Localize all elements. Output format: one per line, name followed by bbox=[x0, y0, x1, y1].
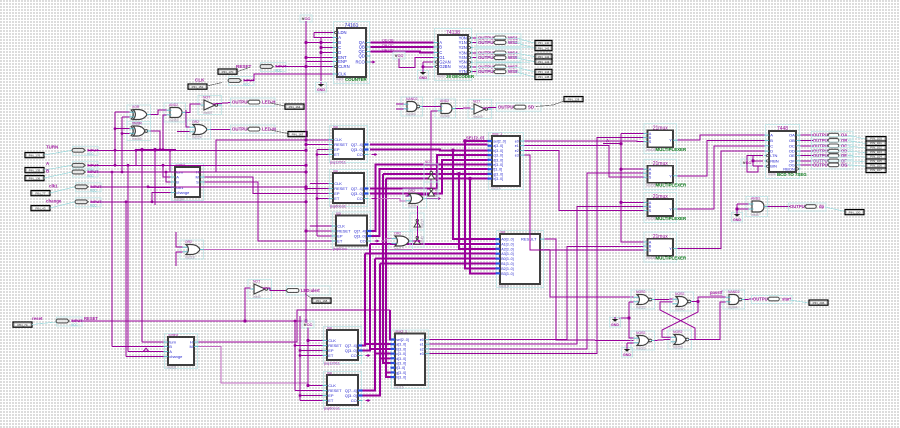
wire c2 M out bbox=[199, 347, 309, 384]
svg-text:c[3..0]: c[3..0] bbox=[493, 154, 503, 158]
wire dp in1 bbox=[737, 203, 749, 205]
svg-text:G2BN: G2BN bbox=[439, 64, 450, 69]
xnor gate inst46 bbox=[127, 122, 151, 142]
xor gate inst63 bbox=[127, 105, 151, 125]
wire drop x155 bbox=[154, 150, 156, 206]
wire nand in2 bbox=[396, 108, 404, 110]
wire 7448 OB bbox=[801, 139, 814, 141]
svg-text:COUNTER: COUNTER bbox=[345, 77, 368, 82]
wire xnor in2 bbox=[122, 133, 130, 135]
wire S out bbox=[205, 182, 332, 241]
svg-text:d[3..0]: d[3..0] bbox=[396, 357, 406, 361]
block RESULT inst19 bbox=[496, 230, 544, 288]
wire mux2 e1 up bbox=[430, 206, 644, 344]
wire 7448 OC bbox=[801, 145, 814, 147]
wire xor in1 bbox=[115, 111, 130, 113]
svg-text:RESULT: RESULT bbox=[521, 237, 537, 242]
svg-text:NOT: NOT bbox=[473, 100, 480, 104]
svg-text:CO: CO bbox=[351, 353, 357, 358]
wire jsq2 CLK bbox=[310, 183, 329, 185]
power VCC (74138 G1) bbox=[393, 52, 405, 59]
output symbol start bbox=[752, 296, 793, 304]
svg-text:21mux: 21mux bbox=[653, 125, 669, 131]
svg-text:AND2: AND2 bbox=[169, 103, 178, 107]
svg-text:LTN: LTN bbox=[770, 153, 777, 158]
svg-text:inst48: inst48 bbox=[440, 115, 450, 119]
wire jsq5 CLK bbox=[308, 385, 323, 387]
svg-text:PIN_100: PIN_100 bbox=[870, 137, 882, 141]
wire nand-and bbox=[423, 106, 442, 108]
output symbol SD bbox=[497, 103, 542, 111]
wire nand in1 bbox=[396, 103, 404, 105]
svg-text:PIN_43: PIN_43 bbox=[35, 206, 45, 210]
svg-text:RBON: RBON bbox=[783, 166, 795, 171]
svg-text:e0: e0 bbox=[515, 140, 519, 144]
bus row h bbox=[386, 178, 488, 180]
svg-text:PIN_135: PIN_135 bbox=[29, 168, 41, 172]
svg-text:CO: CO bbox=[357, 196, 363, 201]
svg-text:BCD TO 7SEG: BCD TO 7SEG bbox=[777, 172, 807, 177]
wire drop x136 bbox=[135, 150, 137, 167]
svg-text:PIN_176: PIN_176 bbox=[29, 153, 41, 157]
wire QB to B bbox=[371, 46, 434, 48]
wire TURN run bbox=[88, 149, 306, 151]
wire inst20 out bbox=[427, 198, 441, 200]
wire vcc-7448 bbox=[747, 156, 753, 166]
svg-text:SD: SD bbox=[528, 105, 534, 110]
svg-text:XOR: XOR bbox=[132, 105, 140, 109]
bus row g bbox=[383, 173, 488, 175]
svg-text:GND: GND bbox=[623, 353, 631, 357]
svg-text:OR2: OR2 bbox=[408, 189, 415, 193]
assignment line WS2 bbox=[515, 42, 535, 48]
wire and-not bbox=[456, 107, 471, 110]
svg-text:mux_1: mux_1 bbox=[493, 132, 503, 136]
svg-text:CLK: CLK bbox=[195, 78, 205, 83]
pin box seg7 bbox=[866, 168, 886, 173]
wire Y->WS2 bbox=[473, 41, 478, 43]
bus RESULT A3 bbox=[365, 253, 496, 255]
svg-text:mux2_1: mux2_1 bbox=[396, 330, 408, 334]
wire or24 in1 bbox=[186, 110, 190, 127]
pin box WS1 bbox=[535, 40, 552, 45]
wire RESET to CLRN bbox=[276, 66, 333, 68]
pin box seg2 bbox=[866, 146, 886, 151]
svg-text:NOT: NOT bbox=[425, 160, 432, 164]
svg-text:inst45: inst45 bbox=[473, 115, 483, 119]
pin box PIN_168 bbox=[312, 298, 331, 303]
output symbol OG bbox=[812, 161, 854, 169]
bus RESULT B0 bbox=[375, 258, 496, 260]
assignment line OB bbox=[848, 140, 866, 143]
svg-text:74161: 74161 bbox=[345, 23, 359, 29]
svg-text:VCC: VCC bbox=[395, 53, 404, 58]
nor gate inst23 bbox=[631, 331, 655, 351]
assignment line start bbox=[790, 300, 809, 303]
svg-text:b[3..0]: b[3..0] bbox=[493, 149, 503, 153]
svg-text:A0[3..0]: A0[3..0] bbox=[501, 238, 513, 242]
assignment line change bbox=[50, 202, 75, 208]
assignment line LED-alert bbox=[305, 294, 312, 299]
wire mux2 e2 up bbox=[430, 173, 644, 349]
wire inst20 in2 bbox=[378, 199, 406, 202]
wire jsq4 RESET bbox=[295, 345, 323, 347]
svg-text:NOT: NOT bbox=[253, 280, 260, 284]
assignment line WS5 bbox=[515, 58, 535, 62]
svg-text:inst46: inst46 bbox=[132, 137, 142, 141]
input label A bbox=[46, 161, 50, 166]
svg-text:PIN_106: PIN_106 bbox=[870, 164, 882, 168]
wire dp in2 bbox=[737, 204, 749, 209]
svg-text:inst39: inst39 bbox=[673, 346, 683, 350]
svg-text:PIN_102: PIN_102 bbox=[870, 146, 882, 150]
wire c2 A bbox=[128, 351, 164, 353]
bus RESULT B3 bbox=[470, 179, 496, 274]
output symbol OD bbox=[812, 147, 854, 155]
wire inst12 in1 bbox=[381, 239, 392, 241]
svg-text:SEL[2..0]: SEL[2..0] bbox=[466, 136, 485, 141]
pin box PIN_176 bbox=[25, 153, 44, 158]
input symbol reset bbox=[56, 317, 83, 327]
wire latch feed A bbox=[550, 250, 634, 298]
svg-text:21mux: 21mux bbox=[653, 234, 669, 240]
svg-text:f[3..0]: f[3..0] bbox=[493, 168, 502, 172]
svg-text:Y: Y bbox=[669, 247, 672, 251]
svg-text:h[3..0]: h[3..0] bbox=[493, 177, 503, 181]
svg-text:change: change bbox=[46, 199, 62, 204]
block jsq60co1 inst25 bbox=[323, 371, 363, 408]
svg-text:jsq60co1: jsq60co1 bbox=[329, 204, 347, 209]
bus jsq1 Q30 bbox=[370, 149, 488, 152]
power VCC (7448) bbox=[741, 159, 753, 166]
svg-text:GND: GND bbox=[733, 218, 741, 222]
wire inst12 in2 bbox=[388, 243, 392, 245]
svg-text:21mux: 21mux bbox=[653, 161, 669, 167]
wire LDN tie bbox=[314, 32, 333, 34]
svg-text:A3[3..0]: A3[3..0] bbox=[501, 252, 513, 256]
svg-text:VCC: VCC bbox=[90, 189, 97, 193]
svg-text:38 DECODER: 38 DECODER bbox=[446, 74, 475, 79]
svg-text:ET: ET bbox=[328, 398, 334, 403]
svg-text:e1: e1 bbox=[515, 144, 519, 148]
input label B bbox=[46, 168, 49, 173]
wire Y->WS1 bbox=[473, 37, 478, 39]
svg-text:OA: OA bbox=[789, 133, 795, 138]
svg-text:AND2: AND2 bbox=[440, 99, 449, 103]
ground (74138 G2) bbox=[418, 70, 429, 80]
svg-text:inst5: inst5 bbox=[253, 295, 261, 299]
wire VCC rail x306 top bbox=[305, 21, 307, 67]
pin box dp bbox=[845, 210, 864, 215]
pin box seg0 bbox=[866, 137, 886, 142]
svg-text:jsq12011: jsq12011 bbox=[329, 160, 347, 165]
input symbol change bbox=[75, 198, 102, 208]
svg-text:VCC: VCC bbox=[90, 204, 97, 208]
input label clk1 bbox=[49, 184, 58, 189]
nor gate inst22 bbox=[631, 290, 655, 310]
wire B run bbox=[88, 171, 306, 173]
svg-text:RCO: RCO bbox=[355, 60, 365, 65]
wire latch gnd2 bbox=[627, 342, 634, 344]
svg-text:NOR2: NOR2 bbox=[673, 330, 683, 334]
bus col 370 bbox=[363, 244, 371, 351]
svg-text:PIN_141: PIN_141 bbox=[538, 46, 550, 50]
wire G2 tie bbox=[423, 61, 433, 63]
bus mux2 a bbox=[365, 343, 391, 345]
wire M out bbox=[205, 177, 329, 194]
wire not-out bbox=[483, 106, 497, 109]
svg-text:PIN_206: PIN_206 bbox=[813, 301, 825, 305]
svg-text:VCC: VCC bbox=[275, 68, 282, 72]
pin box WS5 bbox=[535, 59, 552, 64]
svg-text:RBN: RBN bbox=[770, 158, 779, 163]
svg-text:jsq60co: jsq60co bbox=[332, 246, 348, 251]
wire jsq1 RESET bbox=[306, 144, 329, 146]
bus mux2 h stub bbox=[386, 371, 391, 373]
wire or24 out bbox=[211, 129, 232, 131]
and gate inst48 bbox=[435, 99, 456, 119]
wire B drop bbox=[166, 172, 171, 182]
output symbol OC bbox=[812, 142, 854, 150]
svg-text:ET: ET bbox=[334, 196, 340, 201]
wire and in2 drop bbox=[408, 111, 438, 195]
wire rail x306 mid bbox=[305, 67, 307, 322]
wire buf drop2 bbox=[417, 206, 419, 238]
input symbol TURN bbox=[72, 146, 99, 156]
wire VCC to G1 bbox=[399, 58, 434, 68]
wire jsq4 CLK bbox=[308, 340, 323, 342]
svg-text:VCC: VCC bbox=[71, 323, 78, 327]
svg-text:inst31: inst31 bbox=[167, 366, 177, 370]
pin box PIN_74 bbox=[13, 322, 32, 327]
svg-text:A2[3..0]: A2[3..0] bbox=[501, 247, 513, 251]
bus mux2 b bbox=[370, 348, 391, 350]
wire Y->WS4 bbox=[473, 52, 478, 54]
pin box seg6 bbox=[866, 164, 886, 169]
svg-text:B2[3..0]: B2[3..0] bbox=[501, 267, 513, 271]
svg-text:RESET: RESET bbox=[84, 316, 98, 321]
wire rail x317 bbox=[316, 150, 318, 237]
ground (dp) bbox=[732, 212, 743, 222]
output symbol LED-H bbox=[231, 98, 276, 106]
assignment line LED-M bbox=[270, 130, 288, 134]
nand gate inst44 bbox=[723, 290, 745, 310]
svg-text:inst34: inst34 bbox=[174, 198, 184, 202]
assignment line WS8 bbox=[515, 72, 535, 78]
block control inst31 bbox=[164, 333, 199, 369]
svg-text:CLRN: CLRN bbox=[338, 64, 349, 69]
svg-text:GND: GND bbox=[611, 323, 619, 327]
svg-text:PIN_107: PIN_107 bbox=[870, 168, 882, 172]
wire jsq1 EP bbox=[317, 149, 329, 151]
output symbol LED-M bbox=[231, 125, 277, 133]
wire clk1 drop bbox=[148, 186, 171, 189]
svg-text:passtf: passtf bbox=[710, 290, 723, 295]
svg-text:c[3..0]: c[3..0] bbox=[396, 352, 406, 356]
pin box PIN_206 bbox=[809, 300, 828, 305]
svg-text:inst22: inst22 bbox=[636, 306, 646, 310]
svg-text:Y: Y bbox=[669, 139, 672, 143]
pin box PIN_152 bbox=[188, 84, 207, 89]
and gate inst8 bbox=[746, 197, 768, 218]
assignment line OE bbox=[848, 156, 866, 158]
output symbol WS5 bbox=[477, 54, 522, 62]
wire RESULT out bbox=[545, 239, 634, 340]
svg-text:VCC: VCC bbox=[302, 16, 311, 21]
svg-text:a[3..0]: a[3..0] bbox=[493, 144, 503, 148]
bcd-7seg 7448 U3 bbox=[765, 125, 808, 179]
svg-text:OR2: OR2 bbox=[185, 240, 192, 244]
wire latch in bot bbox=[629, 318, 634, 338]
wire Y->WS5 bbox=[473, 57, 478, 59]
wire or24 in2 bbox=[177, 131, 190, 133]
wire xor->and bbox=[151, 110, 167, 114]
ground (latch2) bbox=[622, 347, 633, 357]
svg-text:VCC: VCC bbox=[87, 152, 94, 156]
svg-text:OG: OG bbox=[841, 162, 848, 167]
svg-text:Y: Y bbox=[669, 174, 672, 178]
assignment line dp bbox=[825, 207, 845, 212]
assignment line reset bbox=[32, 322, 56, 325]
wire Y3 to C bbox=[678, 146, 765, 209]
net label RESET lbl bbox=[84, 316, 98, 321]
wire change drop bbox=[152, 193, 171, 202]
block 21mux inst38 bbox=[643, 232, 687, 262]
nor gate inst39 bbox=[668, 330, 692, 350]
svg-text:inst16: inst16 bbox=[394, 386, 404, 390]
wire jsq4 ET bbox=[300, 355, 323, 357]
wire cross2 bbox=[660, 302, 695, 340]
svg-text:inst20: inst20 bbox=[408, 205, 418, 209]
svg-text:B: B bbox=[46, 168, 49, 173]
svg-text:VCC: VCC bbox=[87, 174, 94, 178]
svg-text:f[3..0]: f[3..0] bbox=[396, 366, 405, 370]
svg-text:AND2: AND2 bbox=[751, 197, 760, 201]
wire mux2 e3 up bbox=[430, 138, 644, 354]
buffer inst47 bbox=[424, 160, 439, 182]
wire rail y149.5 bbox=[136, 149, 176, 151]
wire Y->WS8 bbox=[473, 71, 478, 73]
input label TURN bbox=[46, 145, 58, 150]
assignment line TURN bbox=[44, 150, 72, 155]
svg-text:GND: GND bbox=[317, 88, 325, 92]
svg-text:g[3..0]: g[3..0] bbox=[396, 371, 406, 375]
input label RESET (top) bbox=[236, 64, 252, 69]
wire QA to A bbox=[371, 42, 434, 44]
svg-text:BIN: BIN bbox=[770, 164, 777, 169]
assignment line LED-H bbox=[270, 103, 285, 106]
wire c2 B bbox=[112, 346, 164, 348]
output symbol LED-alert bbox=[286, 286, 330, 295]
svg-text:PIN_164: PIN_164 bbox=[289, 105, 301, 109]
wire xor in2 bbox=[122, 116, 130, 118]
svg-text:A1[3..0]: A1[3..0] bbox=[501, 242, 513, 246]
svg-text:inst43: inst43 bbox=[435, 188, 439, 197]
svg-text:RESET: RESET bbox=[236, 64, 252, 69]
bus mux2 c bbox=[375, 353, 391, 355]
svg-text:QD: QD bbox=[359, 54, 365, 59]
svg-text:B0[3..0]: B0[3..0] bbox=[501, 257, 513, 261]
svg-text:M: M bbox=[189, 344, 192, 349]
assignment line CLK bbox=[207, 83, 222, 87]
wire A br2 bbox=[621, 168, 644, 170]
block jsq12011 inst21 bbox=[323, 326, 363, 363]
svg-text:inst49: inst49 bbox=[406, 113, 416, 117]
wire left drop2 bbox=[299, 316, 301, 401]
svg-text:OE: OE bbox=[789, 153, 795, 158]
svg-text:jsq12011: jsq12011 bbox=[323, 361, 341, 366]
svg-text:inst17: inst17 bbox=[421, 219, 425, 228]
block 21mux inst30 bbox=[643, 193, 687, 223]
svg-text:g[3..0]: g[3..0] bbox=[493, 172, 503, 176]
bus RESULT A0 bbox=[453, 150, 496, 239]
wire and->not bbox=[186, 104, 201, 113]
wire inst20 in1 bbox=[406, 195, 409, 196]
power VCC (bottom) bbox=[302, 321, 314, 328]
net label SEL[2..0] bbox=[466, 136, 485, 141]
assignment line WS1 bbox=[515, 38, 535, 43]
assignment line WS7 bbox=[515, 67, 535, 72]
svg-text:sel[2..0]: sel[2..0] bbox=[493, 140, 506, 144]
svg-text:PIN_144: PIN_144 bbox=[538, 70, 550, 74]
bus col 383 bbox=[383, 174, 391, 363]
wire 7448 OF bbox=[801, 160, 814, 162]
wire clk1 run bbox=[91, 186, 306, 188]
svg-text:NOR2: NOR2 bbox=[636, 331, 646, 335]
pin box WS2 bbox=[535, 46, 552, 51]
svg-text:PIN_103: PIN_103 bbox=[870, 150, 882, 154]
net label A bbox=[606, 138, 609, 143]
wire vrail x115 bbox=[114, 112, 116, 166]
svg-text:control: control bbox=[169, 333, 179, 337]
output symbol OE bbox=[812, 152, 854, 160]
svg-text:PIN_120: PIN_120 bbox=[849, 210, 861, 214]
input symbol clk1 bbox=[75, 183, 102, 193]
svg-text:PIN_167: PIN_167 bbox=[292, 132, 304, 136]
input label CLK bbox=[195, 78, 205, 83]
svg-text:PIN_136: PIN_136 bbox=[29, 176, 41, 180]
output symbol dp bbox=[789, 203, 827, 211]
svg-text:CO: CO bbox=[360, 239, 366, 244]
input symbol A bbox=[72, 161, 99, 171]
wire change run bbox=[91, 201, 306, 203]
svg-text:jsq: jsq bbox=[327, 326, 332, 330]
wire inst5 out bbox=[263, 288, 280, 291]
svg-text:e2: e2 bbox=[420, 347, 424, 351]
buffer inst42 bbox=[410, 230, 425, 247]
wire GND rail x321 bbox=[320, 38, 322, 82]
svg-text:clk1: clk1 bbox=[49, 184, 58, 189]
or gate inst20 bbox=[403, 189, 427, 209]
wire QC to C bbox=[371, 52, 434, 53]
svg-text:OB: OB bbox=[789, 138, 795, 143]
svg-text:ET: ET bbox=[337, 239, 343, 244]
assignment line RESET bbox=[237, 67, 250, 72]
svg-text:C: C bbox=[770, 143, 773, 148]
not gate inst45 bbox=[468, 100, 492, 120]
svg-text:jsq60co1: jsq60co1 bbox=[323, 406, 341, 411]
net label QD/QB bbox=[382, 39, 394, 53]
svg-text:inst24: inst24 bbox=[192, 136, 202, 140]
input symbol RESET bbox=[260, 63, 287, 73]
pin box WS7 bbox=[535, 69, 552, 74]
wire nand out bbox=[745, 298, 753, 301]
svg-text:MULTIPLEXER: MULTIPLEXER bbox=[656, 147, 687, 152]
wire inst5 in bbox=[245, 288, 251, 321]
svg-text:start: start bbox=[782, 297, 792, 302]
assignment line A bbox=[44, 165, 72, 170]
svg-text:PIN_104: PIN_104 bbox=[870, 155, 882, 159]
